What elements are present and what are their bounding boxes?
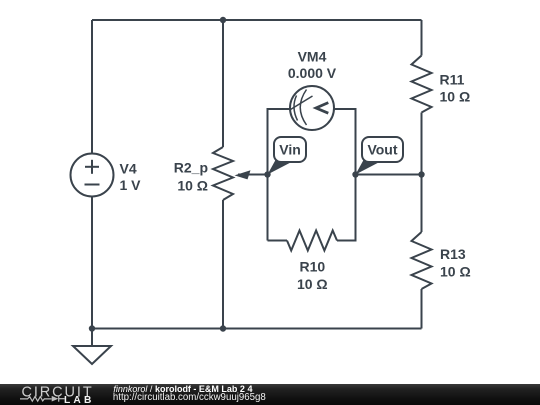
ground (73, 329, 111, 365)
wire R11 bottom lead (421, 113, 423, 175)
junction node at R2_p bottom (220, 325, 226, 331)
wire VM4 left lead (268, 109, 291, 175)
junction node at R2_p top (220, 17, 226, 23)
wire R10 right lead up to node Vout (337, 175, 356, 241)
junction node Vin (264, 171, 270, 177)
svg-text:Vin: Vin (279, 141, 301, 157)
wire left rail upper (V4 top lead) (91, 20, 93, 154)
junction node Vout (352, 171, 358, 177)
svg-text:R11: R11 (440, 71, 465, 87)
node flag Vout (356, 137, 404, 175)
footer title text (113, 384, 252, 394)
label R2_p value (174, 160, 208, 194)
svg-text:1 V: 1 V (120, 177, 142, 193)
svg-text:LAB: LAB (64, 396, 95, 405)
wire node Vin down to R10 (267, 175, 269, 241)
svg-text:10 Ω: 10 Ω (440, 264, 471, 280)
svg-text:V4: V4 (120, 161, 137, 177)
svg-text:R2_p: R2_p (174, 160, 208, 176)
junction node right rail (418, 171, 424, 177)
wire R13 top lead (421, 175, 423, 233)
voltmeter VM4 (290, 86, 334, 130)
svg-text:10 Ω: 10 Ω (177, 177, 208, 193)
footer bar (0, 384, 540, 405)
svg-text:VM4: VM4 (298, 49, 327, 65)
wire node Vout to right rail (356, 174, 422, 176)
svg-text:10 Ω: 10 Ω (297, 276, 328, 292)
voltage source V4 (71, 154, 114, 197)
node flag Vin (268, 137, 307, 175)
junction node at ground tee (89, 325, 95, 331)
svg-text:R10: R10 (299, 259, 325, 275)
label R10 value (297, 259, 328, 293)
resistor R11 (412, 56, 432, 113)
wire right rail R11 top lead (421, 20, 423, 56)
CircuitLab logo (0, 384, 110, 405)
footer url text (113, 392, 266, 403)
wire R2_p bottom lead (222, 200, 224, 329)
wire R13 bottom lead (421, 289, 423, 329)
wire VM4 right lead (334, 109, 356, 175)
label R13 value (440, 246, 471, 279)
wire bottom rail (92, 328, 422, 330)
svg-text:Vout: Vout (367, 141, 397, 157)
label V4 value (120, 161, 142, 194)
resistor R13 (412, 232, 432, 289)
wire R2_p top lead (222, 20, 224, 147)
wire wiper to node Vin (238, 174, 268, 176)
svg-text:R13: R13 (440, 246, 466, 262)
svg-text:0.000 V: 0.000 V (288, 65, 337, 81)
label VM4 value (288, 49, 337, 82)
resistor R10 (287, 231, 337, 251)
potentiometer R2_p wiper arrowhead (235, 170, 251, 179)
wire left rail lower (V4 bottom lead) (91, 197, 93, 329)
label R11 value (440, 71, 471, 104)
wire top rail (92, 19, 422, 21)
svg-text:10 Ω: 10 Ω (440, 89, 471, 105)
potentiometer R2_p (213, 147, 233, 200)
wire R10 left lead (268, 240, 288, 242)
